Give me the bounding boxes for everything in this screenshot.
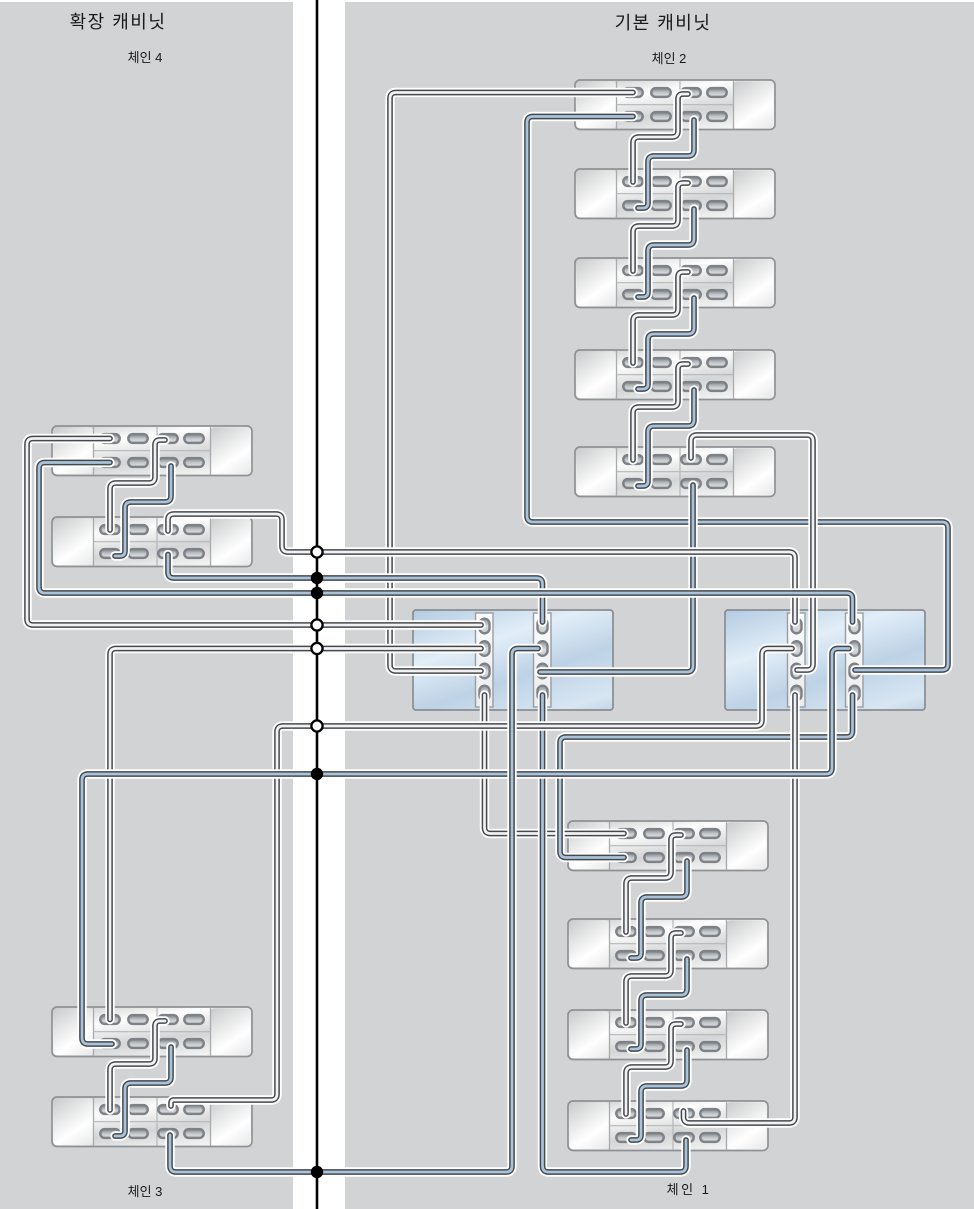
cabinet divider line xyxy=(316,0,319,1209)
wire ctrl1-RSp4 to D-B3 xyxy=(543,695,687,1172)
disk shelf chain3-1 xyxy=(52,1007,252,1057)
wire chain2 zig blue 258 xyxy=(638,298,694,389)
wire chain1 zig dark 919 xyxy=(626,933,681,1023)
disk shelf chain1-2 xyxy=(568,919,768,969)
wire ctrl1-RSp1 to L2-B3 cross578 xyxy=(168,555,543,623)
wire ctrl1-LSp3 to S1-T1 xyxy=(390,93,633,672)
wire chain2 zig dark 258 xyxy=(633,272,688,363)
wire chain2 zig dark 350 xyxy=(633,364,688,460)
wire chain1 zig dark 821 xyxy=(626,835,681,932)
disk shelf chain2-2 xyxy=(575,169,775,219)
expansion cabinet panel xyxy=(0,2,293,1209)
wire ctrl1-RSp2 to E2-B3 cross1172 xyxy=(170,649,538,1173)
wire ctrl2-RSp4 to A-B1 xyxy=(560,695,853,858)
junction filled at y=774 xyxy=(311,768,323,780)
wire chain4 zig dark xyxy=(110,440,165,530)
wire ctrl1-RSp3 to S5-B3 xyxy=(540,485,693,672)
junction open at y=726 xyxy=(311,720,322,731)
disk shelf chain2-5 xyxy=(575,447,775,497)
wire chain2 zig blue 80 xyxy=(638,120,694,208)
wire ctrl2-RSp3 to S1-B1 xyxy=(527,117,948,671)
wire chain1 zig blue 1010 xyxy=(631,1050,687,1140)
disk shelf chain2-1 xyxy=(575,80,775,130)
wire ctrl1-LSp2 to E1-T1 cross648 xyxy=(110,649,481,1020)
disk shelf chain1-3 xyxy=(568,1010,768,1060)
wire chain2 zig blue 350 xyxy=(638,390,694,486)
junction filled at y=1172 xyxy=(311,1166,323,1178)
svg-text:체인 4: 체인 4 xyxy=(128,50,163,65)
wire ctrl1-LSp4 to A-T1 xyxy=(485,695,625,834)
wire chain3 zig blue xyxy=(115,1047,171,1136)
base cabinet panel xyxy=(345,2,974,1209)
wire ctrl2-RSp2 to E1-B1 cross774 xyxy=(82,649,849,1045)
wire chain2 zig dark 169 xyxy=(633,183,688,271)
disk shelf chain1-4 xyxy=(568,1101,768,1151)
wire chain1 zig blue 919 xyxy=(631,959,687,1049)
controller 2 (right) xyxy=(725,610,925,710)
wire chain2 zig dark 80 xyxy=(633,94,688,182)
disk shelf chain4-1 xyxy=(52,426,252,476)
wire chain4 zig blue xyxy=(115,466,171,556)
disk shelf chain2-4 xyxy=(575,350,775,400)
wire chain3 zig dark xyxy=(110,1021,165,1110)
wire ctrl2-RSp1 to L1-B1 cross593 xyxy=(39,463,853,623)
junction filled at y=578 xyxy=(311,572,323,584)
wire ctrl2-LSp3 to S5-T3 xyxy=(691,435,813,670)
junction open at y=625 xyxy=(311,619,322,630)
wire ctrl1-LSp1 to L1-T1 cross625 xyxy=(27,439,481,626)
wire chain2 zig blue 169 xyxy=(638,209,694,297)
disk shelf chain4-2 xyxy=(52,517,252,567)
junction filled at y=593 xyxy=(311,587,323,599)
wire chain1 zig blue 821 xyxy=(631,861,687,958)
svg-text:확장 캐비닛: 확장 캐비닛 xyxy=(70,12,167,32)
junction open at y=648.5 xyxy=(311,643,322,654)
wire chain1 zig dark 1010 xyxy=(626,1024,681,1114)
svg-text:체인 1: 체인 1 xyxy=(667,1182,712,1197)
svg-text:체인 3: 체인 3 xyxy=(128,1184,163,1199)
controller 1 (left) xyxy=(413,610,613,710)
wire ctrl2-LSp4 to D-T3 xyxy=(684,695,796,1123)
svg-text:기본 캐비닛: 기본 캐비닛 xyxy=(615,13,712,33)
disk shelf chain2-3 xyxy=(575,258,775,308)
wire ctrl2-LSp2 to E2-T3 cross726 xyxy=(171,649,792,1107)
wire ctrl2-LSp1 to L2-T3 cross552 xyxy=(168,514,795,622)
svg-text:체인 2: 체인 2 xyxy=(652,51,687,66)
junction open at y=552 xyxy=(311,546,322,557)
disk shelf chain3-2 xyxy=(52,1097,252,1147)
disk shelf chain1-1 xyxy=(568,821,768,871)
